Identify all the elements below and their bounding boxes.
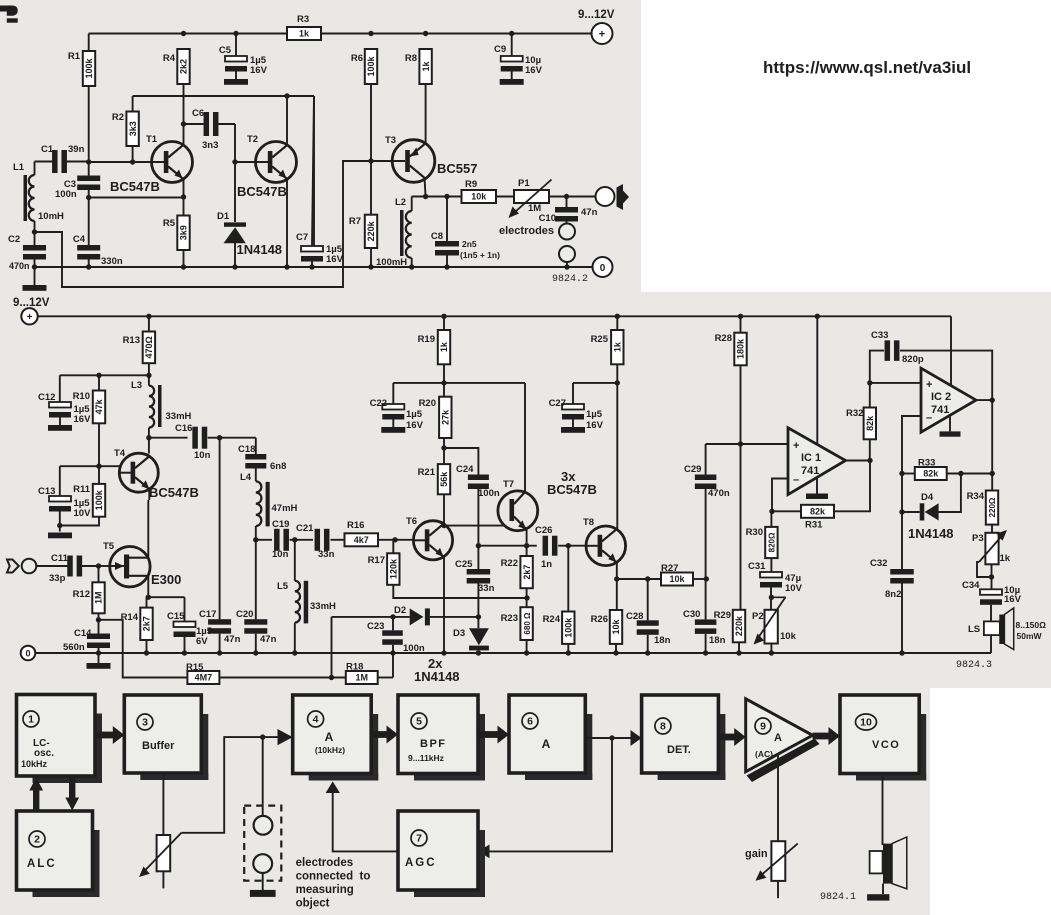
wire IC1 power: [815, 314, 820, 319]
resistor R11: [98, 466, 100, 484]
transistor T7: [498, 491, 538, 531]
svg-text:33mH: 33mH: [166, 411, 192, 422]
svg-text:47k: 47k: [94, 398, 104, 414]
svg-text:connected to: connected to: [296, 871, 371, 883]
capacitor C28: [647, 579, 649, 620]
resistor R10: [98, 375, 100, 390]
capacitor C20: [255, 540, 257, 619]
svg-text:L4: L4: [240, 472, 252, 483]
potentiometer buffer level: [157, 835, 171, 871]
svg-text:R11: R11: [73, 484, 91, 495]
svg-text:100k: 100k: [94, 489, 104, 510]
svg-text:LS: LS: [968, 624, 980, 635]
electrode circle bottom: [253, 854, 272, 873]
block 8 DET: [718, 714, 725, 780]
node T2 collector on feedback wire: [284, 93, 289, 98]
svg-text:9: 9: [760, 721, 766, 733]
svg-text:R2: R2: [112, 112, 124, 123]
svg-text:R32: R32: [846, 408, 863, 419]
svg-text:10kHz: 10kHz: [21, 759, 48, 769]
wire to C18 bend: [220, 437, 256, 439]
svg-text:10mH: 10mH: [38, 211, 64, 222]
svg-text:object: object: [296, 898, 330, 910]
capacitor C5: [225, 56, 247, 62]
svg-text:1k: 1k: [439, 341, 449, 352]
wire collector node to C16: [149, 437, 188, 439]
resistor R31 82k: [772, 510, 801, 512]
inductor L1 10mH: [34, 162, 36, 176]
wire C29 bottom to R27 node: [705, 489, 707, 619]
node P3 bottom: [991, 564, 993, 589]
svg-text:8..150Ω: 8..150Ω: [1016, 620, 1047, 630]
node AGC tap: [609, 735, 614, 740]
wire R15 to R18: [219, 677, 345, 679]
wire T2 base: [235, 161, 256, 163]
resistor R15 4M7: [187, 671, 219, 684]
resistor R4: [177, 49, 189, 84]
svg-text:1N4148: 1N4148: [908, 526, 954, 541]
svg-text:C20: C20: [236, 609, 253, 620]
wire C6 to T2 base node: [234, 124, 236, 162]
svg-text:D1: D1: [217, 211, 230, 222]
block 5 BPF: [478, 714, 485, 781]
capacitor C31: [770, 558, 772, 572]
svg-text:C24: C24: [456, 464, 474, 475]
svg-text:16V: 16V: [406, 420, 424, 431]
svg-text:9824.3: 9824.3: [956, 660, 992, 671]
svg-text:C2: C2: [8, 234, 20, 245]
wire L5 bottom to rail: [294, 623, 296, 653]
svg-text:82k: 82k: [865, 415, 875, 431]
svg-text:AGC: AGC: [405, 857, 437, 869]
terminal +9..12V top: [592, 23, 613, 44]
svg-text:220k: 220k: [366, 220, 376, 241]
svg-text:47n: 47n: [581, 207, 598, 218]
wire R19 to R20: [443, 364, 445, 396]
svg-text:1k: 1k: [613, 341, 623, 352]
svg-text:R22: R22: [501, 558, 518, 569]
arrow block1 block2 down: [69, 777, 75, 799]
wire T8 emitter node: [616, 563, 618, 610]
capacitor C23: [392, 617, 394, 630]
svg-text:C13: C13: [38, 486, 55, 497]
svg-text:C34: C34: [962, 580, 980, 591]
wire R31 right to IC1 out: [834, 461, 870, 512]
svg-text:C5: C5: [219, 45, 232, 56]
diode D3 1N4148: [469, 628, 489, 645]
svg-text:C28: C28: [626, 611, 643, 622]
wire IC1 minus input: [772, 479, 788, 512]
capacitor C1: [52, 150, 58, 173]
svg-text:2k7: 2k7: [522, 565, 532, 580]
svg-text:10k: 10k: [780, 631, 797, 642]
svg-text:741: 741: [931, 404, 949, 416]
svg-text:470Ω: 470Ω: [144, 336, 154, 358]
resistor R23 680ohm: [520, 607, 532, 640]
svg-text:R7: R7: [349, 216, 361, 227]
svg-text:3k3: 3k3: [128, 121, 138, 136]
svg-text:D2: D2: [394, 605, 406, 616]
wire C25 bottom to D3 node: [477, 584, 479, 629]
transistor T2: [256, 142, 297, 183]
svg-text:220k: 220k: [734, 615, 744, 636]
wire IC1 output: [846, 460, 871, 462]
svg-text:DET.: DET.: [667, 744, 691, 756]
capacitor C26: [543, 536, 549, 556]
svg-text:R3: R3: [297, 14, 309, 25]
arrow block5 to block6: [478, 731, 498, 738]
capacitor C8: [435, 241, 459, 247]
svg-text:A: A: [325, 730, 334, 744]
wire R6 to T3 base node: [370, 84, 372, 215]
block 7 AGC: [478, 830, 485, 897]
svg-text:9824.2: 9824.2: [552, 274, 588, 285]
scan background section 1: [0, 0, 641, 293]
svg-text:measuring: measuring: [296, 884, 354, 896]
node electrodes tap: [260, 734, 265, 739]
svg-text:T2: T2: [247, 134, 258, 145]
svg-text:(1n5 + 1n): (1n5 + 1n): [460, 250, 500, 260]
svg-text:47mH: 47mH: [272, 503, 298, 514]
svg-text:BC547B: BC547B: [547, 482, 597, 497]
wire R8 to T3 emitter: [425, 84, 427, 145]
svg-text:C15: C15: [167, 611, 185, 622]
svg-text:C12: C12: [38, 392, 55, 403]
svg-text:BPF: BPF: [420, 738, 447, 750]
IC2 ground: [949, 417, 951, 432]
wire electrode ground: [262, 873, 264, 890]
electrode circle 1: [559, 224, 575, 240]
svg-text:osc.: osc.: [34, 748, 54, 759]
amplifier 9 triangle shadow: [747, 739, 820, 783]
node L4 bottom / C20: [255, 526, 257, 540]
capacitor C10: [555, 207, 578, 213]
capacitor C17: [219, 438, 221, 620]
svg-text:0: 0: [600, 263, 606, 274]
arrow block8 to amp9: [718, 734, 734, 741]
svg-text:10n: 10n: [272, 549, 289, 560]
speaker symbol: [870, 851, 883, 873]
svg-text:R19: R19: [418, 334, 435, 345]
wire pot bottom stub: [162, 871, 164, 888]
wire R9 to P1: [496, 196, 514, 198]
wire T4 emitter to T5 drain: [148, 489, 150, 500]
svg-text:C30: C30: [683, 609, 700, 620]
wire R27 to C29/C30 node: [693, 578, 706, 580]
resistor R5: [177, 216, 189, 251]
svg-text:6n8: 6n8: [270, 461, 286, 472]
svg-text:+: +: [926, 379, 932, 391]
resistor R18 1M: [346, 671, 378, 684]
svg-text:82k: 82k: [810, 507, 826, 517]
capacitor C32 8n2: [890, 569, 914, 575]
node R33 left: [899, 471, 904, 476]
node T2 base / D1: [232, 159, 237, 164]
capacitor C12: [59, 375, 61, 402]
wire source node to C15: [148, 596, 184, 598]
wire R18 right to C23 node: [378, 677, 393, 679]
svg-text:L3: L3: [131, 380, 142, 391]
svg-text:C11: C11: [51, 553, 69, 564]
capacitor C33 820p: [870, 351, 884, 383]
capacitor C19: [256, 539, 272, 541]
svg-text:R4: R4: [163, 53, 176, 64]
svg-text:C22: C22: [370, 398, 387, 409]
svg-text:10k: 10k: [471, 192, 487, 202]
arrowhead into AGC: [478, 845, 490, 859]
wire T7 collector: [524, 383, 526, 492]
capacitor C21: [315, 529, 321, 551]
resistor R29: [733, 610, 745, 643]
svg-text:+: +: [793, 440, 799, 452]
svg-text:1N4148: 1N4148: [237, 242, 283, 257]
svg-text:1: 1: [28, 714, 34, 726]
svg-text:100n: 100n: [55, 189, 77, 200]
terminal 0 middle: [21, 646, 36, 661]
wire IC1 plus input: [706, 443, 788, 445]
svg-text:1N4148: 1N4148: [414, 669, 460, 684]
node L3 bottom / T4 collector: [148, 428, 150, 454]
wire to C12/R10: [60, 374, 149, 376]
svg-text:680 Ω: 680 Ω: [523, 612, 532, 635]
svg-text:C10: C10: [539, 213, 556, 224]
diode D1 1N4148: [234, 162, 236, 222]
svg-text:470n: 470n: [708, 488, 730, 499]
svg-text:50mW: 50mW: [1017, 631, 1043, 641]
diode D4 1N4148: [899, 509, 904, 514]
svg-text:100k: 100k: [84, 57, 94, 78]
wire T6 emitter to rail: [443, 557, 445, 653]
node C19 right / L5: [290, 539, 314, 541]
wire AGC output up to block4: [333, 793, 398, 851]
ground bar below C14: [87, 663, 111, 669]
wire gain pot bottom stub: [777, 881, 779, 898]
svg-text:Buffer: Buffer: [142, 740, 175, 752]
svg-text:R1: R1: [68, 51, 81, 62]
svg-text:R14: R14: [121, 612, 139, 623]
svg-text:100n: 100n: [403, 643, 425, 654]
svg-text:D3: D3: [453, 628, 465, 639]
svg-text:56k: 56k: [439, 471, 449, 487]
wire R17 bottom to R22 bottom: [393, 585, 527, 598]
transistor T4: [119, 453, 158, 492]
resistor R24: [567, 546, 569, 612]
page number glyph 2: [0, 6, 18, 16]
svg-text:BC547B: BC547B: [149, 485, 199, 500]
svg-text:220Ω: 220Ω: [988, 497, 997, 517]
wire speaker ground: [882, 884, 884, 894]
svg-text:100k: 100k: [564, 617, 574, 638]
svg-text:741: 741: [801, 465, 819, 477]
wire ground rail: [35, 266, 593, 268]
svg-text:R16: R16: [347, 520, 364, 531]
svg-text:C16: C16: [175, 423, 192, 434]
wire D2 left down to R18: [331, 617, 333, 678]
resistor R25: [615, 314, 620, 319]
svg-text:L2: L2: [395, 197, 406, 208]
block 4 A 10kHz: [371, 714, 378, 781]
wire feedback down to C7: [313, 96, 315, 246]
svg-text:R12: R12: [73, 589, 90, 600]
resistor R1: [83, 51, 95, 86]
capacitor C27: [573, 382, 617, 384]
inductor L3 33mH: [149, 386, 154, 428]
capacitor C25: [477, 568, 479, 570]
svg-text:10n: 10n: [194, 450, 211, 461]
svg-text:2n5: 2n5: [462, 239, 477, 249]
svg-text:C33: C33: [871, 330, 888, 341]
svg-text:R9: R9: [465, 179, 477, 190]
svg-text:9...12V: 9...12V: [13, 297, 50, 309]
svg-text:180k: 180k: [736, 338, 746, 359]
transistor T6: [413, 521, 452, 560]
resistor R33 82k: [902, 473, 915, 475]
transistor T1: [152, 142, 193, 183]
resistor R3: [287, 27, 321, 40]
svg-text:10V: 10V: [74, 508, 92, 519]
terminal 0 circle: [593, 257, 613, 277]
arrowhead into block4: [278, 729, 293, 745]
svg-text:R8: R8: [405, 53, 417, 64]
wire R7 bottom to rail: [370, 248, 372, 267]
svg-text:R18: R18: [346, 662, 363, 673]
wire R21 bottom to collector node: [443, 494, 445, 525]
wire R5 bottom to rail: [183, 250, 185, 267]
node R16 / R17: [378, 539, 414, 541]
svg-text:33n: 33n: [318, 549, 335, 560]
wire T1 base: [89, 161, 152, 163]
svg-text:C14: C14: [74, 628, 92, 639]
capacitor C4: [77, 245, 100, 251]
potentiometer P3 1k: [991, 525, 993, 533]
node C31 bottom / P2 wiper: [770, 588, 772, 610]
node C26 right / R24: [566, 543, 571, 548]
svg-text:R20: R20: [419, 398, 436, 409]
node T6 collector / R21 bottom: [441, 523, 446, 528]
wire tank feedback to T3 base: [35, 161, 393, 287]
svg-text:16V: 16V: [250, 65, 268, 76]
arrow block4 to block5: [371, 731, 387, 738]
svg-text:C21: C21: [296, 523, 314, 534]
svg-text:9824.1: 9824.1: [820, 892, 856, 903]
svg-text:R10: R10: [73, 391, 90, 402]
diode D2 1N4148: [332, 616, 410, 618]
resistor R34 220ohm: [986, 491, 998, 525]
svg-text:330n: 330n: [101, 256, 123, 267]
svg-text:T4: T4: [114, 448, 126, 459]
capacitor C3: [77, 176, 100, 182]
wire to C24: [444, 448, 478, 475]
svg-text:8n2: 8n2: [885, 589, 901, 600]
svg-text:T5: T5: [103, 541, 115, 552]
svg-text:16V: 16V: [1004, 594, 1022, 605]
wire LS to rail: [990, 635, 992, 653]
wire T4 base: [60, 465, 120, 467]
resistor R16 4k7: [345, 533, 379, 546]
node C6 / T1 collector: [181, 121, 186, 126]
svg-text:1k: 1k: [299, 29, 310, 39]
svg-text:10V: 10V: [785, 583, 803, 594]
wire R4 bottom to C6 node: [183, 84, 185, 145]
node T5 gate / R12: [96, 563, 101, 568]
block 2 ALC: [93, 830, 100, 897]
resistor R8: [419, 49, 431, 84]
svg-text:1k: 1k: [1000, 553, 1011, 564]
svg-text:+: +: [599, 29, 605, 41]
svg-text:https://www.qsl.net/va3iul: https://www.qsl.net/va3iul: [763, 58, 971, 77]
terminal + middle: [21, 308, 37, 324]
wire T7 emitter node: [526, 530, 528, 546]
svg-text:R26: R26: [591, 614, 608, 625]
svg-text:10k: 10k: [669, 574, 685, 584]
dashed electrode box: [244, 806, 281, 881]
block 6 A: [585, 714, 592, 780]
capacitor C24: [468, 475, 489, 481]
svg-text:100mH: 100mH: [376, 257, 407, 268]
svg-text:T7: T7: [503, 479, 514, 490]
svg-text:4: 4: [313, 714, 319, 726]
svg-text:L5: L5: [277, 581, 289, 592]
block 10 VCO: [919, 714, 926, 781]
capacitor C13: [59, 466, 61, 496]
svg-text:–: –: [793, 474, 799, 486]
resistor R13: [146, 314, 151, 319]
wire T5 source down: [147, 576, 149, 597]
arrow block1 block2 up: [33, 789, 39, 811]
svg-text:C23: C23: [367, 621, 384, 632]
wire IC2 minus input: [902, 416, 921, 569]
wire T1 emitter: [183, 179, 185, 197]
svg-text:10: 10: [860, 717, 872, 729]
arrow amp9 to block10: [813, 733, 829, 740]
wire IC2 out down to R34: [991, 400, 993, 490]
svg-text:33p: 33p: [49, 573, 66, 584]
capacitor C2: [23, 245, 46, 251]
svg-text:560n: 560n: [63, 642, 85, 653]
svg-text:T8: T8: [583, 517, 594, 528]
wire emitter node to C3 node: [89, 197, 184, 199]
svg-text:R17: R17: [368, 555, 385, 566]
resistor R22: [526, 546, 528, 556]
resistor R6: [365, 49, 377, 84]
node C16 right / C17: [217, 435, 222, 440]
wire R33 right to output node: [947, 473, 993, 475]
potentiometer P1 1M: [514, 190, 549, 203]
svg-text:R6: R6: [351, 53, 363, 64]
svg-text:16V: 16V: [74, 414, 92, 425]
resistor R28: [738, 314, 743, 319]
capacitor C6: [204, 112, 210, 136]
transistor T8: [586, 526, 626, 566]
svg-text:100k: 100k: [366, 55, 376, 76]
svg-text:C17: C17: [199, 609, 216, 620]
svg-text:3k9: 3k9: [179, 225, 189, 240]
resistor R2: [126, 112, 138, 147]
inductor L5 33mH: [294, 540, 296, 581]
svg-text:82k: 82k: [923, 469, 939, 479]
wire T1 collector: [183, 144, 185, 147]
svg-text:(10kHz): (10kHz): [315, 745, 345, 755]
wire T3 collector to L2 node: [425, 178, 426, 197]
resistor R9: [462, 190, 497, 203]
wire R1 bottom to base node: [88, 86, 90, 162]
node C13 bottom: [59, 512, 61, 532]
svg-text:R31: R31: [805, 520, 823, 531]
ground bar below C2: [23, 285, 47, 291]
ground bar below C13: [48, 533, 72, 539]
svg-text:120k: 120k: [389, 558, 399, 579]
inductor L2 100mH: [411, 197, 413, 212]
